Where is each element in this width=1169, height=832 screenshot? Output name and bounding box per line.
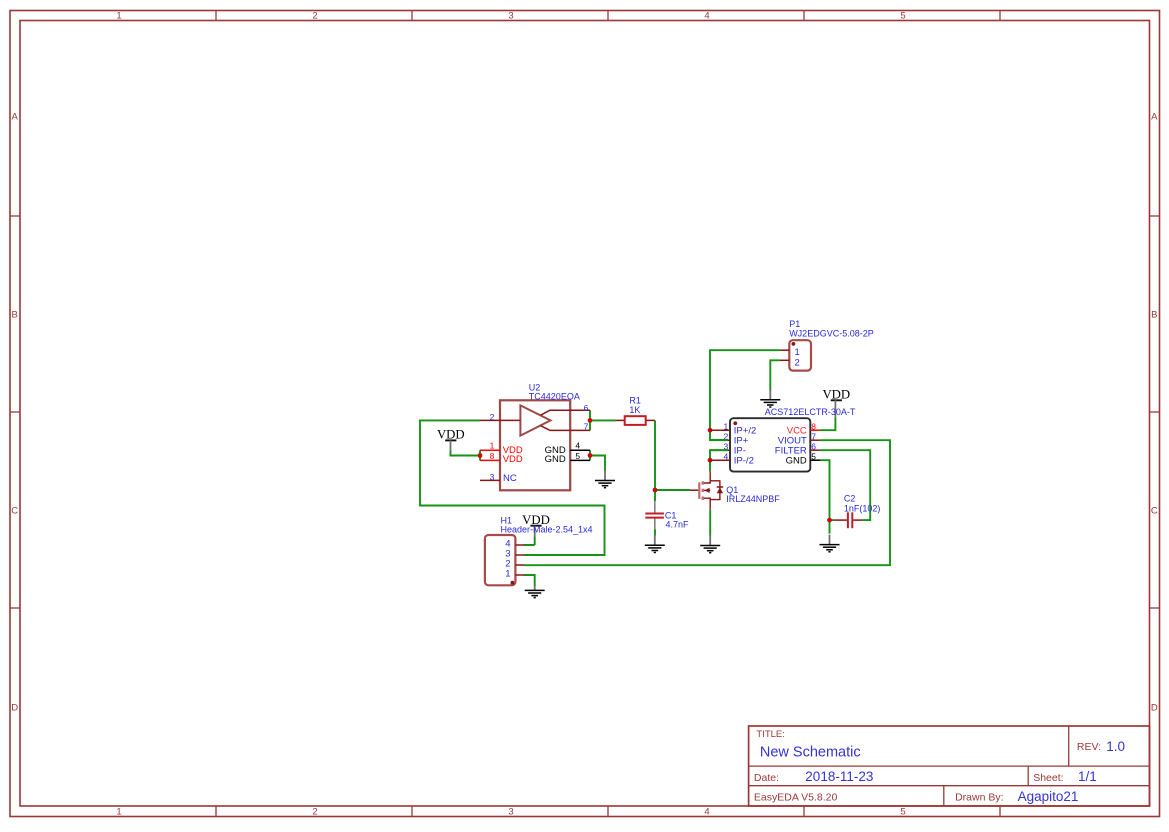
svg-text:1/1: 1/1	[1078, 769, 1097, 784]
svg-text:7: 7	[811, 432, 816, 442]
svg-text:Sheet:: Sheet:	[1033, 772, 1063, 784]
svg-text:NC: NC	[503, 473, 517, 484]
svg-text:3: 3	[490, 472, 495, 482]
svg-text:5: 5	[575, 451, 580, 461]
svg-text:1.0: 1.0	[1106, 739, 1125, 754]
svg-text:2: 2	[312, 11, 317, 22]
svg-text:2018-11-23: 2018-11-23	[805, 769, 873, 784]
svg-text:WJ2EDGVC-5.08-2P: WJ2EDGVC-5.08-2P	[789, 329, 874, 339]
svg-text:New Schematic: New Schematic	[760, 744, 861, 760]
svg-text:C: C	[11, 506, 18, 517]
svg-text:8: 8	[811, 422, 816, 432]
svg-text:4.7nF: 4.7nF	[666, 520, 690, 530]
svg-text:VDD: VDD	[503, 454, 523, 465]
svg-text:1: 1	[723, 422, 728, 432]
svg-text:4: 4	[704, 807, 709, 818]
svg-text:6: 6	[811, 442, 816, 452]
svg-text:2: 2	[795, 357, 800, 368]
svg-text:1: 1	[116, 11, 121, 22]
svg-text:GND: GND	[545, 454, 566, 465]
svg-text:1: 1	[490, 441, 495, 451]
svg-text:1: 1	[116, 807, 121, 818]
svg-text:TITLE:: TITLE:	[756, 729, 785, 740]
svg-text:2: 2	[312, 807, 317, 818]
svg-text:6: 6	[584, 403, 589, 413]
svg-text:3: 3	[508, 11, 513, 22]
svg-text:8: 8	[490, 451, 495, 461]
svg-text:4: 4	[704, 11, 709, 22]
svg-text:A: A	[1151, 112, 1158, 123]
svg-text:EasyEDA V5.8.20: EasyEDA V5.8.20	[754, 792, 838, 804]
svg-text:5: 5	[900, 807, 905, 818]
svg-text:B: B	[12, 310, 18, 321]
svg-text:D: D	[1151, 703, 1158, 714]
svg-text:7: 7	[584, 422, 589, 432]
svg-text:4: 4	[575, 440, 580, 450]
svg-text:IRLZ44NPBF: IRLZ44NPBF	[726, 494, 780, 504]
svg-text:A: A	[12, 112, 19, 123]
svg-text:ACS712ELCTR-30A-T: ACS712ELCTR-30A-T	[765, 407, 856, 417]
svg-text:1nF(102): 1nF(102)	[844, 503, 881, 513]
svg-text:IP-/2: IP-/2	[734, 456, 754, 467]
svg-text:REV:: REV:	[1077, 741, 1101, 753]
svg-text:Header-Male-2.54_1x4: Header-Male-2.54_1x4	[501, 524, 593, 534]
svg-text:1: 1	[505, 568, 510, 579]
svg-text:3: 3	[508, 807, 513, 818]
svg-text:B: B	[1151, 310, 1157, 321]
svg-text:TC4420EOA: TC4420EOA	[529, 392, 580, 402]
svg-text:C2: C2	[844, 494, 856, 504]
svg-text:Agapito21: Agapito21	[1018, 789, 1079, 804]
svg-text:5: 5	[811, 452, 816, 462]
svg-text:C: C	[1151, 506, 1158, 517]
svg-text:GND: GND	[786, 456, 807, 467]
svg-text:Drawn By:: Drawn By:	[955, 792, 1003, 804]
svg-text:2: 2	[490, 412, 495, 422]
svg-text:1K: 1K	[629, 405, 640, 415]
svg-text:5: 5	[900, 11, 905, 22]
svg-text:4: 4	[723, 452, 728, 462]
svg-text:D: D	[11, 703, 18, 714]
svg-text:Date:: Date:	[754, 772, 779, 784]
